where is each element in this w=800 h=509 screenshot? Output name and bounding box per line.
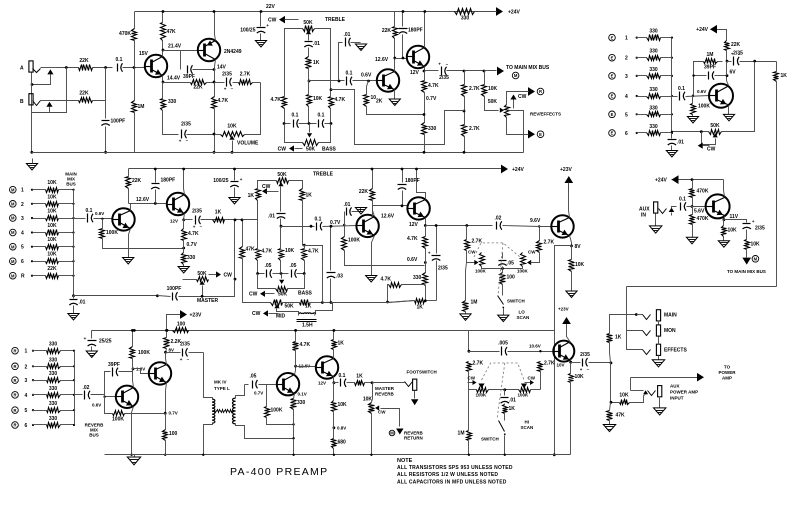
svg-text:.01: .01 (344, 32, 351, 38)
jack A tip contact (33, 69, 41, 73)
junction 180PF at node (402, 57, 405, 60)
wire 2/35 to 2.7K (233, 82, 239, 84)
junction E row 3 (636, 75, 638, 77)
wire R row 2 a (33, 366, 47, 368)
svg-text:2.7K: 2.7K (544, 240, 555, 246)
label E row 4 (625, 94, 628, 100)
wire Q2 emitter to rail (215, 12, 216, 41)
svg-text:10K: 10K (619, 393, 629, 399)
junction R row 5 bus (73, 409, 75, 411)
wire M row 4 b (59, 232, 74, 234)
svg-text:HI: HI (525, 420, 530, 425)
wire 25/25 stub (91, 331, 93, 339)
junction M row 4 start (31, 231, 33, 233)
wire fb mid b2 (402, 284, 426, 286)
svg-text:M: M (11, 202, 15, 207)
ground Q3 emitter (389, 99, 400, 106)
wire hi center b (504, 404, 506, 405)
wire input A to mix junction (57, 67, 79, 69)
capacitor .02 R (83, 385, 90, 400)
junction tone2 mid node (280, 225, 283, 228)
capacitor 2/35 Q4 (438, 61, 449, 81)
wire Q9 collector (569, 185, 570, 218)
arrow CW rev pot (510, 94, 526, 109)
wire E cap to base (686, 96, 710, 97)
junction 12.6V q13 (294, 365, 297, 368)
wire Q11 39PF stub (105, 372, 111, 397)
potentiometer 50K BASS mid (276, 287, 288, 292)
wire treble2 left (258, 181, 277, 189)
svg-text:1K: 1K (313, 60, 320, 66)
resistor 1K treble (306, 57, 320, 69)
junction E base (692, 95, 694, 97)
wire E row 6 b (661, 132, 672, 134)
wire 180PF down (402, 35, 404, 59)
wire E bus vertical (671, 38, 673, 139)
wire volume right to feedback (245, 83, 261, 135)
dashed gang diag hi (497, 363, 505, 419)
svg-text:6: 6 (625, 131, 628, 137)
junction output sum node (610, 362, 613, 365)
wire 100K R down (132, 359, 134, 369)
resistor 100 supply (173, 322, 189, 333)
wire R fb b (125, 413, 166, 415)
junction 0.8V (333, 426, 336, 429)
voltage label 10V (557, 363, 565, 368)
label SWITCH lo (507, 299, 525, 304)
junction 25/25 node (133, 329, 136, 332)
resistor 47K out (607, 411, 626, 421)
junction +23V corner (166, 329, 169, 332)
arrow CW treble2 (262, 184, 279, 194)
capacitor .005 hi (498, 341, 508, 356)
wire mid row b (283, 302, 300, 304)
junction Q7 base (343, 224, 345, 226)
resistor 22K channel A (79, 58, 93, 71)
wire Q6 chain b (183, 241, 185, 253)
ground Q7 (366, 276, 377, 283)
hi pot left wiper (478, 384, 484, 389)
capacitor .02 lo (495, 216, 502, 230)
wire to power amp up (630, 378, 632, 391)
junction Q9 emitter (570, 245, 573, 248)
wire q15 e chain (570, 363, 572, 374)
title PA-400 PREAMP (230, 466, 328, 478)
wire t2 row b (273, 273, 289, 275)
svg-text:0.7V: 0.7V (426, 96, 437, 102)
svg-text:10K: 10K (47, 237, 57, 243)
label REV/EFFECTS (530, 112, 561, 117)
label M row 1 (21, 188, 24, 194)
label +24V top (508, 10, 520, 16)
voltage label 21.4V (168, 44, 182, 50)
wire emitter to 2/35 mid (184, 219, 193, 221)
voltage label 12.6V mix (136, 197, 150, 203)
wire foot stem (414, 391, 416, 399)
svg-text:MAIN: MAIN (664, 313, 677, 319)
resistor 1K q14 (332, 340, 345, 350)
wire Q7 base to 100K (344, 225, 346, 237)
wire 100K R up (132, 331, 134, 347)
voltage label 0.1V q13 (298, 392, 307, 397)
junction R row 3 bus (73, 379, 75, 381)
wire lo left b (467, 251, 475, 263)
svg-text:100K: 100K (138, 350, 150, 356)
svg-text:R: R (13, 393, 16, 398)
junction Q6 0.7V (182, 247, 185, 250)
svg-text:4.7K: 4.7K (308, 249, 319, 255)
svg-text:0.7V: 0.7V (254, 391, 263, 396)
wire E row 1 a (637, 37, 647, 39)
resistor 4.7K tone left (270, 97, 286, 109)
voltage label 8V q9 (575, 244, 582, 250)
svg-text:.05: .05 (507, 261, 514, 267)
node R input 6 (12, 422, 19, 429)
wire 180PF mid column (155, 169, 157, 183)
wire bass2 right (288, 274, 305, 289)
wire E row4 to cap (672, 96, 678, 98)
resistor 10K M row 2 (46, 194, 59, 206)
wire lo cap right (503, 226, 552, 227)
svg-text:INPUT: INPUT (670, 396, 684, 401)
svg-text:1K: 1K (338, 341, 345, 347)
svg-text:50K: 50K (710, 123, 720, 129)
wire pot ground side (509, 111, 524, 153)
label AMP (722, 376, 732, 381)
svg-text:SWITCH: SWITCH (507, 299, 525, 304)
svg-text:2.7K: 2.7K (469, 126, 480, 132)
resistor 330 E row 3 (647, 67, 661, 79)
svg-text:2: 2 (625, 56, 628, 62)
svg-text:+: + (752, 219, 755, 224)
wire bus to 100PF (105, 68, 107, 119)
wire E 2/35 left (727, 61, 732, 63)
svg-text:330: 330 (49, 357, 58, 363)
wire 47K to mid row (243, 259, 271, 303)
junction 100/25 mid rail (233, 168, 236, 171)
svg-text:2/35: 2/35 (580, 352, 590, 358)
svg-text:1: 1 (625, 36, 628, 42)
svg-text:4.7K: 4.7K (380, 277, 391, 283)
svg-text:1M: 1M (707, 52, 714, 58)
wire M row 1 a (33, 189, 46, 191)
svg-text:50K: 50K (285, 304, 295, 310)
wire 2/35 q8 column (436, 226, 438, 254)
svg-text:2K: 2K (376, 99, 383, 105)
wire M row 1 b (59, 189, 74, 191)
junction E row 2 (636, 57, 638, 59)
junction 180PF rail (402, 10, 405, 13)
label 2N4249 (224, 49, 242, 55)
svg-text:5: 5 (21, 245, 24, 251)
master reverb wiper (375, 405, 379, 410)
resistor 330 E row 5 (647, 105, 661, 116)
resistor 10K out mix (619, 393, 629, 405)
svg-text:+: + (84, 336, 87, 341)
wire 100/25 mid stub (234, 169, 236, 181)
wire q13 100K a (266, 385, 268, 407)
wire treble right (315, 29, 331, 85)
svg-text:4.7K: 4.7K (262, 249, 273, 255)
wire M row 6 a (33, 261, 46, 263)
svg-text:12.6V: 12.6V (381, 214, 395, 220)
wire bass cap row b (299, 123, 317, 125)
wire 39PF to collector line (193, 69, 215, 71)
svg-text:CW: CW (252, 311, 261, 317)
junction M row R start (31, 275, 33, 277)
svg-text:12.6V: 12.6V (136, 197, 150, 203)
svg-text:.01: .01 (313, 41, 320, 47)
junction 0.7V R (164, 412, 167, 415)
ground aux out jack (654, 408, 666, 415)
svg-text:0.1: 0.1 (116, 57, 123, 63)
aux out jack contact (648, 391, 656, 396)
wire R row 5 b (61, 410, 75, 412)
arrow +24V top (491, 7, 504, 16)
resistor 10K tone2 mid (279, 248, 295, 261)
note title NOTE (397, 458, 413, 464)
label INPUT (670, 396, 684, 401)
wire Q8 collector up (417, 169, 426, 200)
node M input 6 (10, 258, 17, 265)
resistor 470K (119, 29, 136, 41)
svg-text:330: 330 (649, 105, 658, 111)
label MASTER (197, 298, 219, 304)
arrow CW bass2 (249, 291, 275, 298)
svg-text:TO: TO (724, 365, 731, 370)
svg-text:BASS: BASS (298, 291, 313, 297)
resistor 10K M row 3 (46, 209, 59, 221)
wire 1M hi top (468, 390, 470, 431)
wire E row 5 a (637, 114, 647, 116)
wire Q9 emitter (570, 236, 572, 246)
arrow to reverb R (525, 87, 536, 96)
wire q13 c to q14 base (296, 366, 317, 368)
label HI (525, 420, 530, 425)
svg-text:ALL RESISTORS 1/2 W UNLESS NO: ALL RESISTORS 1/2 W UNLESS NOTED (397, 472, 498, 478)
wire lo 1M bottom (465, 312, 467, 314)
svg-text:0.7V: 0.7V (169, 411, 178, 416)
svg-text:0.6V: 0.6V (407, 257, 418, 263)
jack MON (656, 325, 676, 336)
arrow TO POWER AMP (697, 373, 704, 382)
svg-text:330: 330 (49, 371, 58, 377)
junction 180PF mid rail (154, 168, 157, 171)
voltage label 11V aux (730, 214, 739, 220)
svg-text:5.6V: 5.6V (694, 209, 705, 215)
wire 2.7K corner (253, 82, 261, 84)
wire q14 collector (333, 357, 335, 359)
node M input 4 (10, 229, 17, 236)
svg-text:0.6V: 0.6V (95, 211, 104, 216)
label 50K bass (306, 147, 316, 153)
svg-text:POWER: POWER (718, 370, 736, 375)
wire coil right (315, 314, 316, 316)
svg-text:100K: 100K (698, 104, 710, 110)
svg-text:LO: LO (519, 310, 526, 315)
junction R row 5 (32, 409, 34, 411)
junction q13 sec join (292, 437, 294, 439)
wire .01 to gnd (73, 306, 75, 314)
resistor 10K q15 (569, 374, 585, 383)
svg-text:+: + (240, 177, 243, 182)
svg-text:180PF: 180PF (408, 28, 423, 34)
svg-text:10K: 10K (363, 397, 373, 403)
svg-text:ALL CAPACITORS IN MFD UNLESS: ALL CAPACITORS IN MFD UNLESS NOTED (397, 479, 507, 485)
wire out node up (610, 343, 611, 363)
svg-text:100PF: 100PF (111, 119, 126, 125)
resistor 330 R row 5 (47, 401, 61, 412)
resistor 1M E (704, 52, 718, 64)
node M main mix (512, 72, 519, 79)
wire jacks gnd stem3 (658, 356, 660, 360)
label 100K lo right (517, 269, 529, 274)
svg-text:10K: 10K (338, 402, 348, 408)
wire E row 2 a (637, 57, 647, 59)
wire cap to 1K rev (347, 382, 355, 384)
wire E 1M left (694, 62, 704, 96)
wire q14 e chain (333, 383, 335, 401)
junction M row 3 start (31, 217, 33, 219)
svg-text:180PF: 180PF (405, 178, 420, 184)
resistor 2.7K lo left (465, 239, 483, 251)
svg-text:2/35: 2/35 (181, 122, 191, 128)
junction .03 top (330, 225, 333, 228)
svg-text:CW: CW (518, 94, 527, 100)
wire cap to Q5 base (94, 218, 113, 220)
svg-text:10.6V: 10.6V (529, 344, 541, 349)
wire Q12 collector (166, 353, 167, 365)
svg-text:R: R (539, 89, 542, 94)
wire 470K column top (134, 12, 136, 29)
svg-text:0.1: 0.1 (318, 113, 325, 119)
svg-text:+24V: +24V (655, 178, 667, 184)
svg-text:330: 330 (461, 16, 470, 22)
voltage label 0.6V q8 (407, 257, 418, 263)
label MID (276, 314, 286, 320)
wire E collector column (726, 62, 728, 76)
wire 1K rev to node (365, 382, 373, 384)
junction aux rail (691, 178, 694, 181)
resistor 1K E out (774, 72, 788, 82)
svg-text:22K: 22K (731, 42, 741, 48)
junction 330 rail (423, 151, 426, 154)
junction R row 2 (32, 365, 34, 367)
arrow CW for volume (268, 16, 299, 24)
dashed gang line hi (482, 363, 525, 380)
svg-text:BUS: BUS (66, 182, 76, 187)
voltage label 0.6V mix (95, 211, 104, 216)
label REVERB rev (375, 392, 395, 397)
svg-text:2/35: 2/35 (180, 342, 190, 348)
label FOOTSWITCH (407, 370, 437, 375)
ground 47K (603, 425, 615, 432)
svg-text:CW: CW (249, 292, 258, 298)
svg-text:+: + (428, 251, 431, 256)
junction hi right (539, 350, 541, 352)
wire pot top to R (507, 92, 531, 105)
ground Q9 10K (566, 291, 577, 298)
svg-text:.01: .01 (509, 398, 516, 404)
node R input 3 (12, 377, 19, 384)
svg-text:1K: 1K (306, 193, 313, 199)
svg-text:330: 330 (649, 87, 658, 93)
resistor 10K Q9 (569, 260, 585, 272)
capacitor 2/35 aux (743, 219, 765, 232)
node E input 5 (609, 111, 616, 118)
junction Q4 collector rail (423, 10, 426, 13)
svg-text:FOOTSWITCH: FOOTSWITCH (407, 370, 437, 375)
aux jack contact (659, 209, 667, 214)
wire bus bottom line (74, 295, 158, 297)
wire left rail to bass (285, 124, 303, 143)
arrow +24V aux (672, 175, 679, 184)
resistor 1K hi (503, 405, 516, 414)
wire R row4 to cap (75, 394, 83, 396)
label +23V q9 (560, 167, 572, 173)
resistor 10K q14 e (332, 401, 348, 412)
wire bus to 100PF (158, 296, 171, 297)
svg-text:M: M (390, 431, 394, 436)
wire aux 10K gnd (723, 237, 725, 241)
label CW lo right (528, 250, 536, 255)
junction E row 2 bus (671, 57, 673, 59)
resistor 4.7K tone right (329, 97, 346, 109)
resistor 1K out (607, 334, 622, 343)
resistor 22K M row R (46, 266, 59, 278)
svg-text:1: 1 (25, 349, 28, 355)
junction master right (234, 278, 237, 281)
node M input 5 (10, 243, 17, 250)
wire R cap-base (91, 395, 117, 397)
resistor 10K aux out (745, 240, 761, 250)
potentiometer 100K hi left (477, 388, 489, 393)
voltage label 12V q14 (318, 381, 326, 386)
transistor Q4 (407, 46, 430, 68)
wire mid rail tone2 (280, 227, 282, 249)
label CW lo left (468, 250, 476, 255)
svg-text:.05: .05 (265, 263, 272, 269)
svg-text:330: 330 (168, 99, 177, 105)
aux jack arrow (669, 208, 675, 216)
wire emitter chain (424, 71, 426, 81)
wire Q2 collector down (215, 60, 216, 83)
ground 100/25 mid (229, 198, 240, 205)
wire M row 5 a (33, 246, 46, 248)
node M input 1 (10, 186, 17, 193)
svg-text:22K: 22K (79, 58, 89, 64)
junction hi switch rail (504, 454, 506, 456)
resistor 100 lo (500, 273, 516, 285)
arrow reverb return (396, 429, 403, 435)
wire 100/25 mid gnd (234, 188, 236, 198)
potentiometer 50K MASTER (197, 271, 209, 282)
wire 2/35 q8 down (436, 261, 438, 301)
wire 100/25 stub (260, 12, 262, 27)
svg-text:47K: 47K (167, 29, 177, 35)
junction E collector node (726, 74, 729, 77)
junction E 22K node (726, 60, 729, 63)
wire tone feedback box (331, 90, 461, 145)
svg-text:22K: 22K (47, 266, 57, 272)
ground lo switch (498, 315, 509, 322)
treble2 wiper (278, 182, 283, 186)
ground E 100K (687, 117, 698, 124)
resistor 1K mid row (300, 300, 310, 306)
svg-text:REV/EFFECTS: REV/EFFECTS (530, 112, 561, 117)
label LO (519, 310, 526, 315)
junction bus bottom (72, 294, 75, 297)
